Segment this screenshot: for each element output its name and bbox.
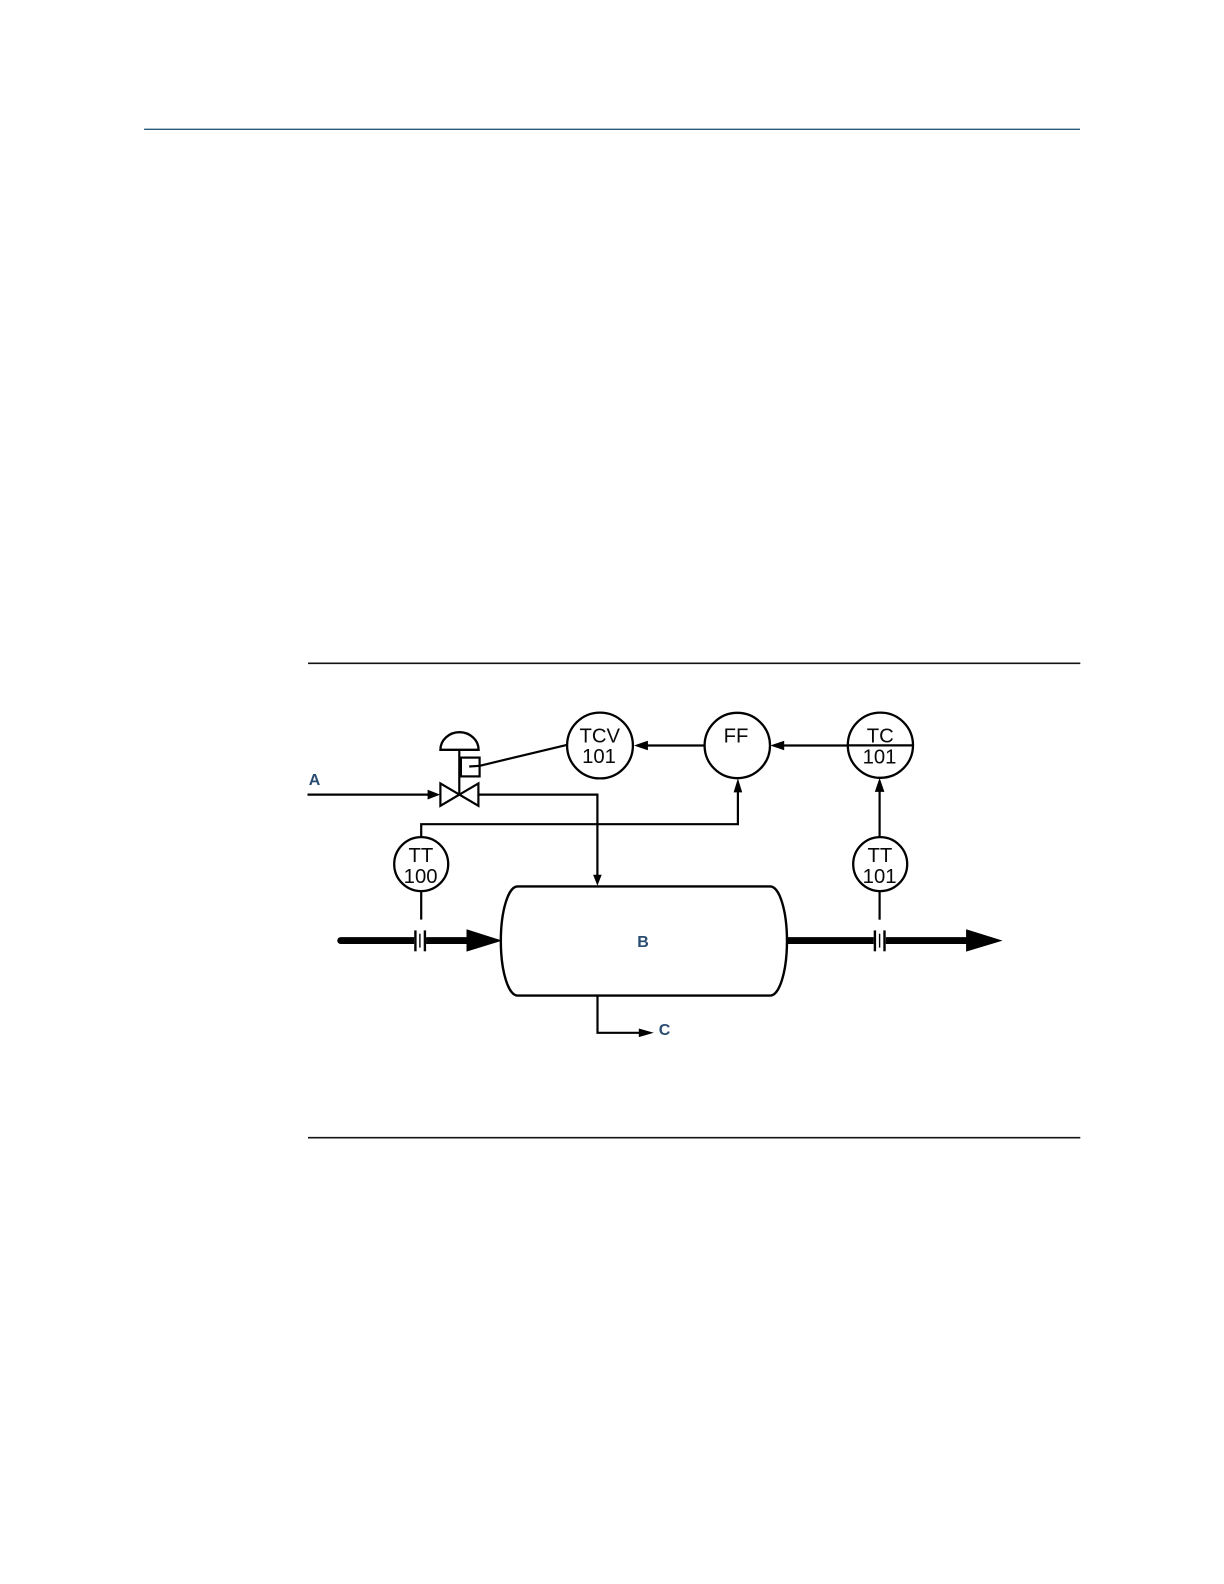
top blue header rule — [144, 128, 1080, 130]
lower black rule below figure — [308, 1137, 1080, 1139]
wire A inlet line — [308, 793, 429, 795]
wire signal from TCV101 to positioner — [469, 745, 567, 767]
instrument circle TC 101 — [848, 713, 913, 778]
instrument circle TT 100 — [394, 837, 448, 891]
wire TT101 down to pipe tap — [878, 891, 880, 920]
arrowhead into FF — [770, 741, 784, 750]
arrowhead into FF bottom — [734, 778, 743, 792]
svg-text:C: C — [659, 1022, 671, 1039]
svg-text:TC: TC — [867, 725, 894, 747]
valve actuator dome — [440, 732, 478, 750]
svg-text:TCV: TCV — [580, 725, 621, 747]
valve positioner box — [461, 758, 480, 777]
pipe tap break right — [874, 930, 876, 951]
vessel B — [501, 886, 787, 995]
instrument circle TT 101 — [853, 837, 907, 891]
control valve TCV body — [440, 783, 478, 805]
svg-text:101: 101 — [863, 746, 897, 768]
svg-text:100: 100 — [404, 866, 438, 888]
instrument circle FF — [705, 713, 770, 778]
wire TC to FF — [784, 744, 848, 746]
pipe tap break left — [414, 930, 416, 951]
TC shared-display line — [848, 744, 913, 746]
wire TT101 to TC — [878, 791, 880, 837]
upper black rule above figure — [308, 662, 1080, 664]
wire TT100 to FF — [421, 792, 738, 838]
svg-text:TT: TT — [868, 845, 893, 867]
arrowhead into TC bottom — [875, 778, 885, 792]
svg-text:101: 101 — [863, 866, 897, 888]
valve stem — [458, 750, 460, 795]
wire FF to TCV — [648, 744, 705, 746]
svg-text:101: 101 — [582, 746, 616, 768]
arrowhead into vessel top — [593, 875, 602, 886]
svg-text:B: B — [637, 934, 649, 951]
instrument circle TCV 101 — [567, 713, 633, 779]
pipe product line right — [787, 937, 874, 944]
svg-text:TT: TT — [409, 845, 434, 867]
arrowhead pipe into vessel — [467, 929, 503, 951]
svg-text:FF: FF — [724, 725, 749, 747]
arrowhead into TCV — [634, 741, 648, 750]
svg-text:A: A — [309, 772, 321, 789]
pipe feed line left — [337, 937, 414, 944]
wire C outlet from vessel bottom — [598, 996, 640, 1033]
arrowhead pipe outlet — [966, 929, 1003, 951]
arrowhead into valve — [428, 790, 441, 800]
wire TT100 down to pipe tap — [420, 891, 422, 920]
arrowhead C — [639, 1029, 654, 1038]
wire valve outlet to vessel top — [478, 795, 597, 876]
